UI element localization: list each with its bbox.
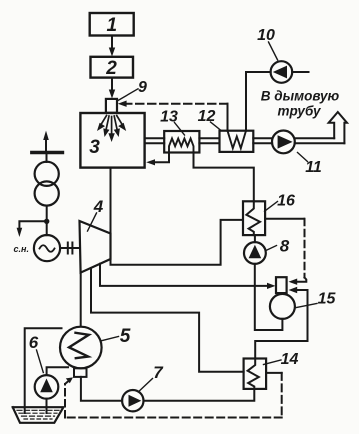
pump6 suction pipe: [46, 399, 48, 413]
label 13: [160, 109, 184, 136]
dashed drain line HX14 down: [281, 373, 283, 418]
pump 7: [122, 390, 143, 411]
feedwater HX13 into boiler with arrow: [146, 152, 169, 165]
label 8: [266, 237, 290, 256]
svg-text:1: 1: [107, 15, 118, 36]
wire arrow box2 to burner 9: [109, 78, 115, 99]
wire busbar to transformer: [46, 153, 48, 163]
HX14 shell drain stub right: [266, 372, 282, 374]
label 7: [140, 363, 165, 391]
pump8 to HX16 coil: [254, 235, 256, 242]
busbar arrow up: [43, 131, 49, 153]
HX14 coil to deaerator (drain up): [255, 287, 307, 359]
condensate line pump7 to HX14 coil: [144, 389, 255, 401]
junction node: [44, 219, 49, 224]
wire arrow box1 to box2: [109, 36, 115, 57]
condensate line hotwell to pump 7: [81, 377, 122, 401]
extraction line 2: turbine to deaerator 15: [100, 264, 276, 289]
flue gas duct (double lines): [145, 138, 345, 143]
label 16: [265, 193, 296, 212]
aux power branch arrow (с.н.): [14, 221, 47, 254]
extraction line 3: turbine to HX14 shell: [91, 268, 244, 372]
deaerator 15 column: [276, 277, 287, 293]
text to smoke stack: [261, 89, 340, 119]
label 10: [257, 27, 277, 60]
stack outline arrow: [329, 112, 347, 143]
svg-text:3: 3: [89, 137, 100, 158]
svg-text:5: 5: [120, 326, 131, 347]
deaerator outlet to pump 8 suction: [255, 264, 283, 330]
dashed bottom return line: [65, 417, 282, 419]
wire transformer to generator: [46, 206, 48, 236]
box 2 (fuel feed block): [91, 57, 134, 79]
condenser hotwell: [74, 368, 87, 377]
svg-text:4: 4: [93, 197, 104, 216]
turbine exhaust to condenser: [80, 273, 82, 327]
HX16 shell drain right: [265, 218, 304, 220]
label 9: [118, 79, 148, 101]
air line fan10 down to HX12 coil: [245, 72, 247, 131]
svg-text:2: 2: [105, 58, 117, 79]
dashed riser to condenser with arrow: [65, 377, 73, 417]
label 15: [296, 291, 336, 308]
svg-text:14: 14: [281, 351, 299, 368]
HX 16 (HP heater): [243, 201, 265, 235]
HX 14 (LP heater): [244, 359, 267, 389]
burner 9: [106, 99, 117, 113]
fan 11: [272, 131, 295, 154]
boiler 3: [80, 113, 144, 168]
label 12: [198, 108, 221, 130]
label 5: [101, 326, 130, 347]
label 14: [264, 351, 299, 368]
svg-text:10: 10: [257, 27, 275, 44]
svg-text:В дымовую: В дымовую: [261, 89, 340, 104]
svg-text:9: 9: [138, 79, 147, 96]
turbine 4: [80, 221, 111, 273]
condenser 5: [60, 327, 102, 369]
water tank: [13, 407, 64, 423]
cooling water return pipe to tank: [25, 328, 62, 413]
transformer (two circles): [35, 162, 59, 206]
dashed drain HX16 to deaerator: [289, 219, 307, 285]
flame arrows inside boiler: [97, 116, 126, 143]
dashed fuel-gas line from HX12 coil to burner 9: [118, 101, 228, 131]
label 11: [298, 153, 322, 177]
cooling water supply pump6 to condenser: [47, 367, 68, 375]
svg-text:15: 15: [318, 291, 337, 308]
label 4: [88, 197, 104, 231]
main steam line boiler to turbine: [110, 168, 112, 234]
fan 10: [246, 61, 309, 83]
svg-text:6: 6: [29, 333, 39, 352]
pump 8: [244, 242, 266, 264]
svg-text:7: 7: [153, 363, 164, 382]
svg-text:трубу: трубу: [277, 104, 322, 119]
label 6: [29, 333, 44, 373]
generator shaft coupling: [60, 243, 80, 254]
svg-text:с.н.: с.н.: [14, 244, 29, 254]
svg-text:8: 8: [280, 237, 290, 256]
busbar: [32, 151, 63, 155]
HX 13 (economizer): [164, 131, 199, 153]
generator G: [34, 235, 60, 261]
feedwater HX16 coil up to HX13 coil: [194, 152, 254, 201]
pump 6: [35, 375, 59, 399]
extraction line 1: turbine to HX16 shell: [111, 220, 243, 265]
svg-text:12: 12: [198, 108, 216, 125]
deaerator 15 tank: [270, 294, 295, 319]
HX 12 (gas heater): [220, 131, 254, 152]
svg-text:16: 16: [277, 193, 295, 210]
box 1 (fuel prep block): [90, 13, 134, 36]
